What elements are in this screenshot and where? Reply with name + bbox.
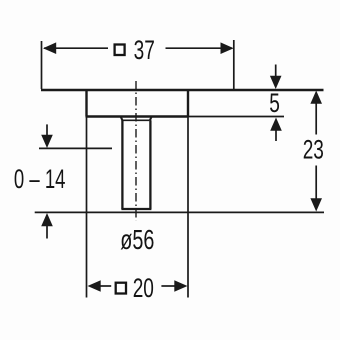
dim 20 line right stub <box>161 285 176 287</box>
top plate surface line <box>41 89 324 91</box>
flange left edge <box>85 89 87 117</box>
dim 5 down arrow tail <box>275 65 277 79</box>
prong right wall <box>149 120 151 209</box>
svg-text:ø56: ø56 <box>120 225 154 256</box>
dim 37 right extension line <box>233 40 235 89</box>
square symbol of dim 20 <box>116 283 126 294</box>
dim 0-14 down arrow <box>41 135 53 148</box>
prong left wall <box>121 120 123 209</box>
dim 23 up arrow <box>310 91 322 104</box>
svg-text:0 – 14: 0 – 14 <box>14 164 66 194</box>
dim 23 line upper segment <box>315 101 317 135</box>
dim 5 up arrow tail <box>275 128 277 141</box>
dim 5 up arrow <box>270 118 282 131</box>
prong neck line <box>122 119 150 121</box>
square symbol of dim 37 <box>115 45 125 56</box>
svg-text:37: 37 <box>134 35 155 65</box>
svg-text:5: 5 <box>269 88 280 118</box>
dim 23 line lower segment <box>315 166 317 202</box>
dim 37 left extension line <box>41 41 43 89</box>
dim 5 down arrow <box>270 76 282 89</box>
dim 20 right arrow <box>174 280 187 292</box>
dim 23 down arrow <box>310 198 322 211</box>
dim 37 right arrow <box>221 42 234 54</box>
dim 37 line left segment <box>44 47 108 49</box>
prong right chamfer <box>150 117 152 120</box>
dim 0-14 up arrow <box>41 213 53 226</box>
svg-text:23: 23 <box>303 135 324 165</box>
flange bottom line <box>86 115 189 117</box>
dim 37 line right segment <box>166 47 233 49</box>
0-14 upper reference line <box>39 147 112 149</box>
svg-text:20: 20 <box>133 273 154 303</box>
flange left extension line <box>86 117 88 298</box>
dim 0-14 down arrow tail <box>46 124 48 137</box>
flange bottom extension line to right <box>188 116 284 118</box>
bottom long reference line <box>35 211 324 213</box>
dim 20 left arrow <box>88 280 101 292</box>
prong left chamfer <box>121 117 123 120</box>
dim 37 left arrow <box>43 42 56 54</box>
flange right extension line <box>187 117 189 298</box>
dim 20 line left stub <box>99 285 111 287</box>
flange right edge <box>187 89 189 117</box>
prong bottom line <box>121 208 151 210</box>
centerline (dash-dot) <box>135 81 137 221</box>
dim 0-14 up arrow tail <box>46 224 48 239</box>
